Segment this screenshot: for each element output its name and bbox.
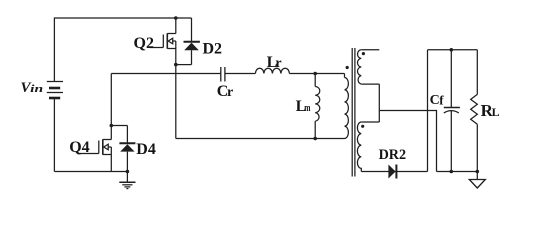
ground right xyxy=(469,172,485,189)
label Q2 xyxy=(134,35,154,52)
capacitor Cr xyxy=(221,67,225,82)
wire output top rail xyxy=(428,49,478,51)
svg-text:in: in xyxy=(30,83,43,95)
svg-text:f: f xyxy=(439,93,444,108)
transformer primary polarity dot xyxy=(346,66,349,69)
svg-text:Q4: Q4 xyxy=(69,139,89,156)
label Lr xyxy=(267,54,282,71)
wire center tap bracket xyxy=(378,84,380,122)
transistor Q2 xyxy=(150,18,176,65)
diode DR2 xyxy=(388,165,396,179)
label D4 xyxy=(136,141,156,158)
wire bottom left rail xyxy=(54,171,127,173)
wire Q2 source down to lower rail xyxy=(175,65,177,139)
wire Q2 source loop xyxy=(176,64,192,66)
transformer secondary 1 polarity dot xyxy=(362,52,365,55)
svg-text:m: m xyxy=(304,102,310,114)
svg-text:r: r xyxy=(227,85,233,100)
wire top rail xyxy=(54,18,191,82)
label Vin xyxy=(21,80,44,96)
svg-text:C: C xyxy=(430,93,440,108)
wire DR2 up leg xyxy=(427,50,429,172)
label Lm xyxy=(296,98,311,115)
diode D4 xyxy=(119,126,135,172)
diode D2 xyxy=(184,18,200,65)
node Q2 drain on top rail xyxy=(174,16,178,20)
svg-text:r: r xyxy=(275,56,281,71)
svg-text:DR2: DR2 xyxy=(379,147,407,163)
transformer secondary winding 2 xyxy=(357,122,379,172)
svg-text:D2: D2 xyxy=(203,40,223,57)
label Cf xyxy=(430,93,445,109)
transistor Q4 xyxy=(79,139,112,171)
node Cf top xyxy=(450,48,454,52)
wire D4 branch xyxy=(111,125,127,127)
label D2 xyxy=(203,40,223,57)
node Q2 source / D2 anode xyxy=(174,63,178,67)
capacitor Cf xyxy=(444,50,460,172)
transformer secondary 2 polarity dot xyxy=(361,125,364,128)
wire battery negative down xyxy=(53,98,55,172)
wire center tap output xyxy=(379,111,436,172)
wire middle rail xyxy=(111,73,344,75)
label DR2 xyxy=(379,147,407,163)
wire half-bridge leg down to Q4 xyxy=(110,74,112,140)
transformer secondary winding 1 xyxy=(358,50,380,84)
node Cf bottom xyxy=(450,170,454,174)
ground left xyxy=(119,172,135,189)
resistor RL xyxy=(471,50,478,172)
wire secondary bottom rail to DR2 xyxy=(361,171,427,173)
inductor Lr xyxy=(255,68,289,73)
node Lm bottom xyxy=(313,137,317,141)
label Q4 xyxy=(69,139,89,156)
label RL xyxy=(481,101,500,120)
label Cr xyxy=(217,83,233,100)
node Lm top xyxy=(313,72,317,76)
node D4 branch xyxy=(110,124,114,128)
node RL bottom / ground xyxy=(476,170,480,174)
svg-text:Q2: Q2 xyxy=(134,35,154,52)
transformer core xyxy=(352,48,355,177)
transformer T1 primary winding xyxy=(345,74,349,139)
svg-text:D4: D4 xyxy=(136,141,156,158)
node ground junction left xyxy=(126,170,130,174)
svg-text:L: L xyxy=(492,105,500,119)
inductor Lm xyxy=(315,74,320,139)
wire output bottom rail xyxy=(437,171,478,173)
battery Vin xyxy=(47,82,63,99)
wire lower return rail xyxy=(176,138,345,140)
